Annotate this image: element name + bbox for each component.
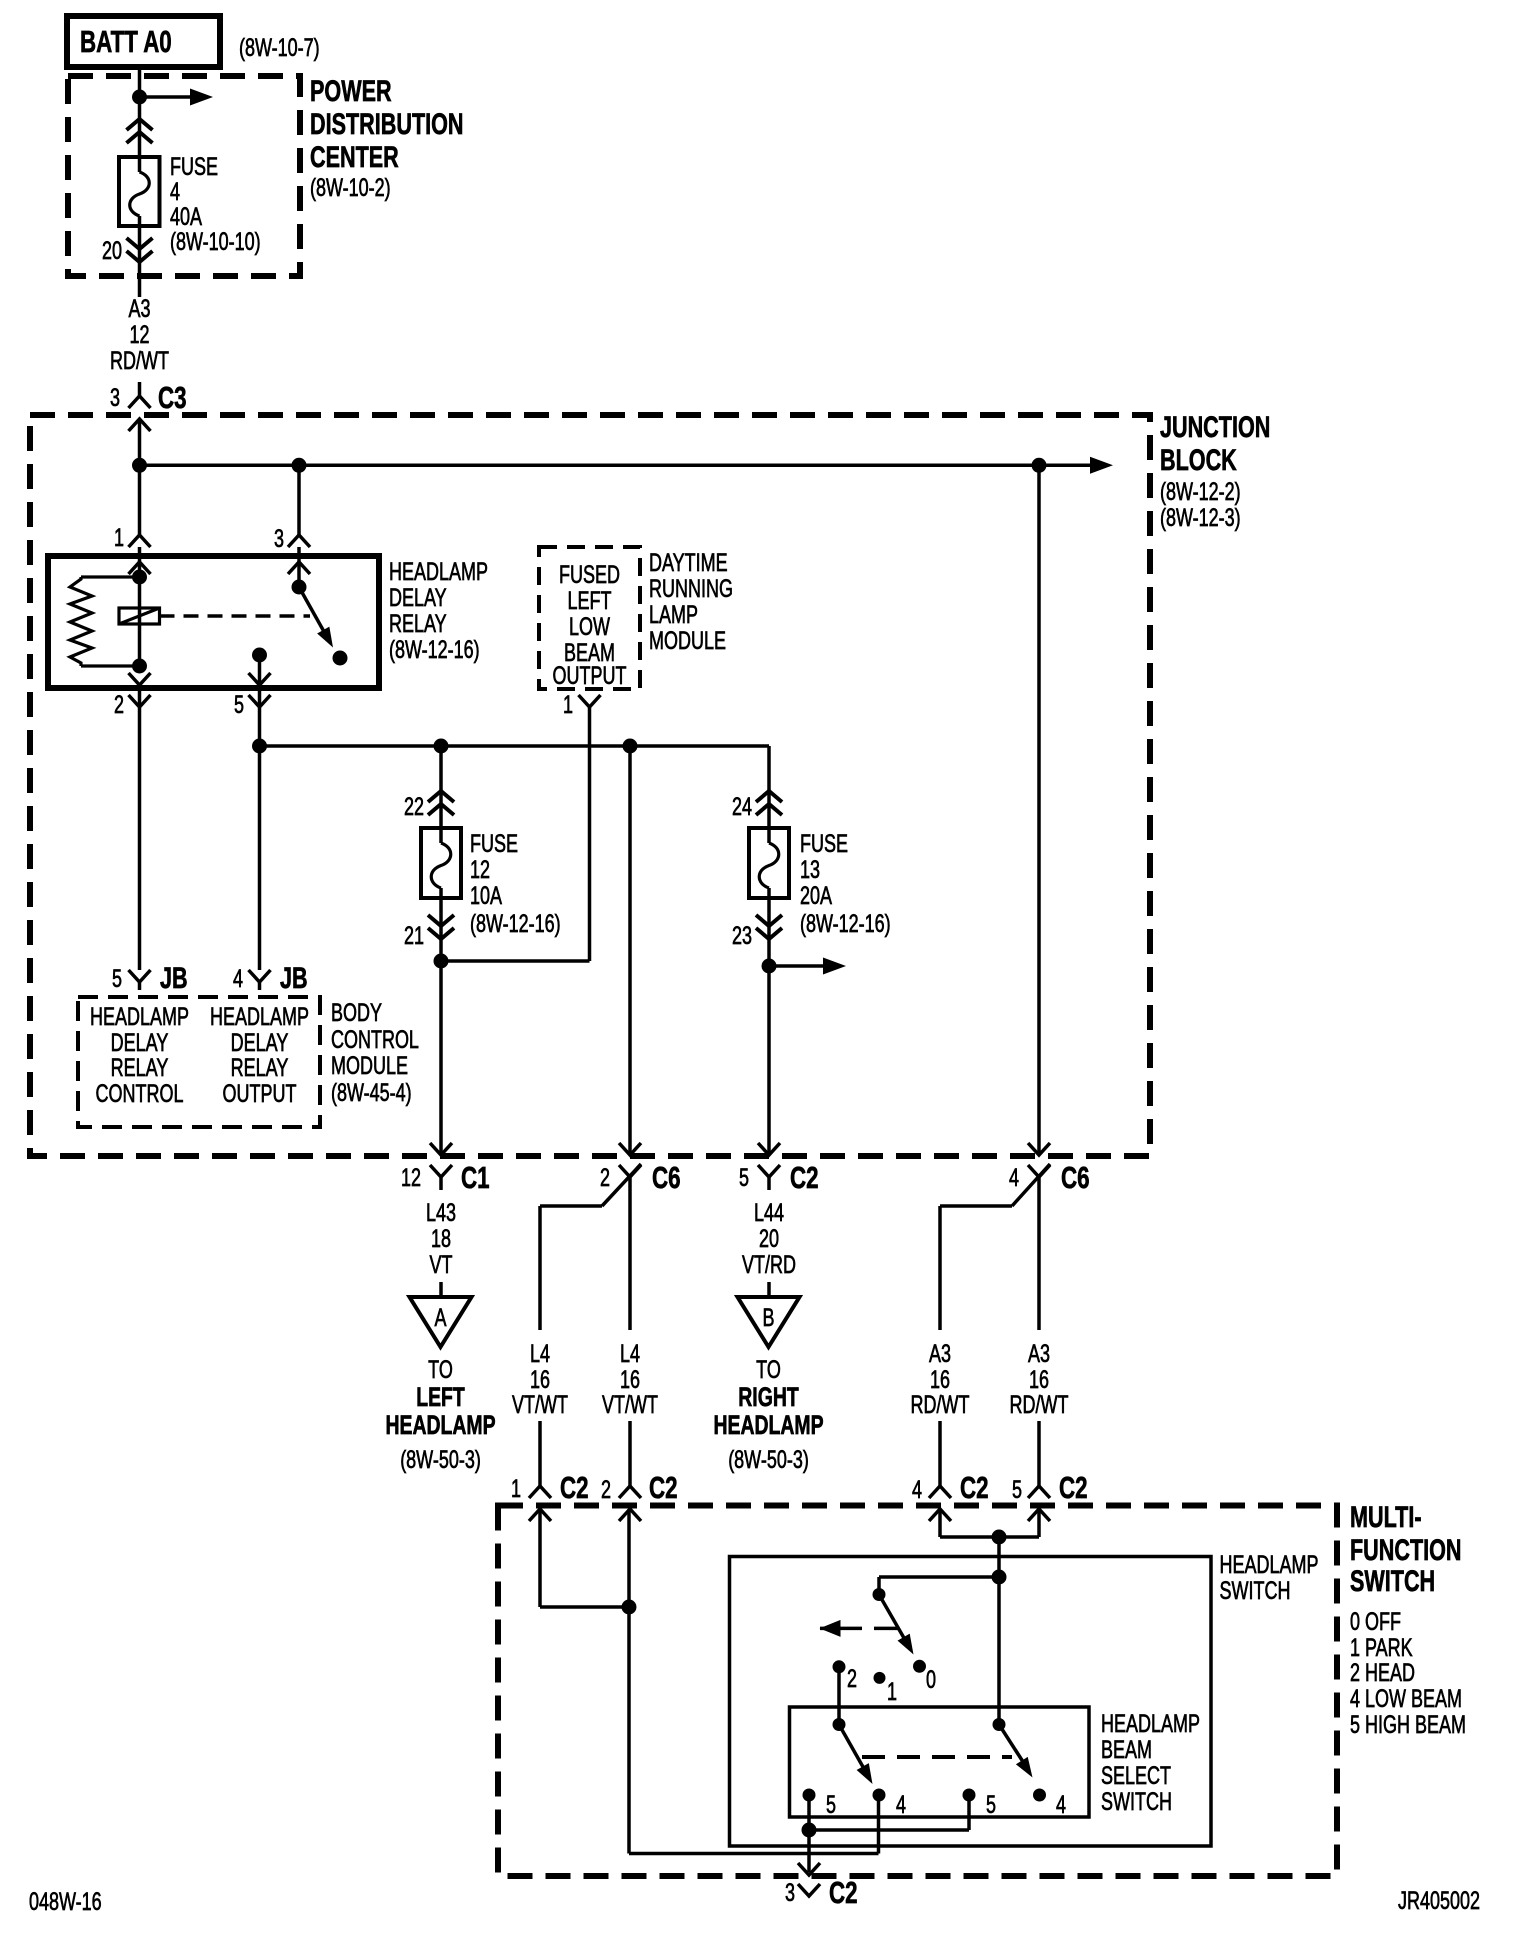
- daytime running lamp module box FUSED LEFT LOW BEAM OUTPUT: [539, 547, 640, 689]
- beam select right arm: [999, 1725, 1027, 1769]
- svg-text:JB: JB: [280, 960, 308, 994]
- svg-text:4: 4: [912, 1475, 922, 1504]
- svg-text:POWER: POWER: [310, 73, 392, 107]
- svg-text:DISTRIBUTION: DISTRIBUTION: [310, 106, 464, 140]
- svg-text:RD/WT: RD/WT: [911, 1390, 970, 1419]
- svg-text:2: 2: [847, 1664, 857, 1693]
- svg-text:048W-16: 048W-16: [29, 1887, 102, 1916]
- svg-text:1: 1: [887, 1677, 897, 1706]
- rotary switch common node: [873, 1588, 886, 1601]
- beam select left pole node: [833, 1718, 846, 1731]
- wire from DRL pin 1 to fuse 12 output node: [588, 707, 592, 961]
- beam select contact 5 left: [803, 1789, 816, 1802]
- svg-text:(8W-12-16): (8W-12-16): [389, 635, 480, 664]
- svg-text:JR405002: JR405002: [1398, 1886, 1480, 1915]
- svg-text:12: 12: [470, 855, 490, 884]
- svg-text:C2: C2: [649, 1470, 678, 1504]
- svg-text:CONTROL: CONTROL: [96, 1079, 184, 1108]
- wire C6 pin 4 branch diagonal: [1012, 1164, 1050, 1206]
- svg-text:RIGHT: RIGHT: [738, 1382, 799, 1412]
- relay switch arm: [299, 587, 327, 637]
- fuse F13: [749, 828, 789, 898]
- connector C6 pin 2: [619, 1143, 641, 1155]
- svg-text:(8W-10-10): (8W-10-10): [170, 227, 261, 256]
- wire feed to rotary common: [879, 1575, 999, 1579]
- inline connector above fuse 13 pin 24: [756, 791, 782, 802]
- junction node bus right: [1032, 458, 1047, 473]
- svg-text:2 HEAD: 2 HEAD: [1350, 1658, 1415, 1687]
- svg-text:5: 5: [234, 690, 244, 719]
- svg-text:LAMP: LAMP: [649, 600, 698, 629]
- inline connector above fuse 12 pin 22: [428, 791, 454, 802]
- svg-text:VT: VT: [430, 1250, 453, 1279]
- arrow feed to other PDC circuits: [140, 95, 197, 99]
- relay pin 2: [129, 673, 151, 685]
- svg-text:23: 23: [732, 921, 752, 950]
- svg-text:TO: TO: [756, 1355, 781, 1384]
- svg-text:FUNCTION: FUNCTION: [1350, 1532, 1462, 1566]
- svg-text:MODULE: MODULE: [331, 1051, 408, 1080]
- junction node bus relay pin 3: [292, 458, 307, 473]
- svg-text:OUTPUT: OUTPUT: [223, 1079, 297, 1108]
- svg-text:FUSE: FUSE: [470, 829, 518, 858]
- relay coil-to-contact dashed link: [160, 614, 311, 618]
- beam select left arm: [839, 1725, 867, 1775]
- wire from C3 to bus: [138, 419, 142, 535]
- svg-text:HEADLAMP: HEADLAMP: [90, 1002, 189, 1031]
- beam select contact 5 right: [963, 1789, 976, 1802]
- battery feed box BATT A0: [67, 16, 220, 67]
- svg-text:SWITCH: SWITCH: [1220, 1576, 1291, 1605]
- svg-text:LEFT: LEFT: [416, 1382, 465, 1412]
- beam select pole link dashed: [862, 1755, 1012, 1759]
- svg-text:DAYTIME: DAYTIME: [649, 548, 728, 577]
- wire C2 pin 2 to beam select contact 4: [627, 1509, 631, 1854]
- fuse F4: [119, 157, 160, 226]
- svg-text:C3: C3: [158, 380, 187, 414]
- wire RD/WT left to C2 pin 4: [938, 1421, 942, 1486]
- wire C6 pin 4 straight: [1037, 1190, 1041, 1330]
- svg-text:10A: 10A: [470, 881, 502, 910]
- connector C3 mating arrow below junction block edge: [129, 419, 151, 431]
- svg-text:SWITCH: SWITCH: [1101, 1787, 1172, 1816]
- wire A0 from BATT to fuse 4: [138, 67, 142, 157]
- svg-text:1: 1: [114, 523, 124, 552]
- headlamp switch box: [730, 1557, 1212, 1847]
- connector C1 pin 12: [430, 1143, 452, 1155]
- svg-text:C2: C2: [960, 1470, 989, 1504]
- arrow fuse 13 feed to other circuits: [769, 964, 829, 968]
- svg-text:0: 0: [926, 1665, 936, 1694]
- svg-text:RELAY: RELAY: [111, 1053, 169, 1082]
- relay contact node pin 5: [252, 648, 267, 663]
- svg-text:20: 20: [759, 1224, 779, 1253]
- svg-text:3: 3: [274, 524, 284, 553]
- svg-text:(8W-12-2): (8W-12-2): [1160, 477, 1241, 506]
- inline connector below fuse 4 pin 20: [127, 251, 153, 262]
- wire C2 pins 4 and 5 bridge: [938, 1509, 942, 1537]
- junction node pin 5 wire: [252, 739, 267, 754]
- svg-text:TO: TO: [428, 1355, 453, 1384]
- wire VT/RD to triangle B: [767, 1282, 771, 1297]
- junction node contacts 5 bridge: [802, 1823, 817, 1838]
- svg-text:2: 2: [114, 690, 124, 719]
- svg-text:RD/WT: RD/WT: [110, 346, 169, 375]
- svg-text:4: 4: [233, 964, 243, 993]
- svg-text:L43: L43: [426, 1198, 456, 1227]
- svg-text:BLOCK: BLOCK: [1160, 442, 1237, 476]
- junction node A0: [132, 90, 147, 105]
- svg-text:L44: L44: [754, 1198, 784, 1227]
- inline connector below fuse 12 pin 21: [428, 928, 454, 939]
- rotary contact 1: [874, 1672, 886, 1684]
- svg-text:SWITCH: SWITCH: [1350, 1563, 1435, 1597]
- headlamp delay relay box: [48, 556, 379, 688]
- svg-text:RELAY: RELAY: [231, 1053, 289, 1082]
- rotary contact 2: [833, 1660, 846, 1673]
- wire C6 pin 2 straight: [628, 1190, 632, 1330]
- svg-text:3: 3: [785, 1878, 795, 1907]
- svg-text:HEADLAMP: HEADLAMP: [1220, 1550, 1319, 1579]
- svg-text:4: 4: [1009, 1163, 1019, 1192]
- body control module box: [78, 997, 320, 1127]
- svg-text:13: 13: [800, 855, 820, 884]
- svg-text:BEAM: BEAM: [1101, 1735, 1152, 1764]
- wire VT/WT right to C2 pin 2: [628, 1421, 632, 1486]
- svg-text:CENTER: CENTER: [310, 139, 399, 173]
- connector C2 pin 5: [758, 1143, 780, 1155]
- svg-text:20A: 20A: [800, 881, 832, 910]
- svg-text:5: 5: [739, 1163, 749, 1192]
- junction node pins 4-5 bridge: [992, 1530, 1007, 1545]
- wire A3 from PDC to junction block: [138, 226, 142, 297]
- wire to connector C6 pin 2: [628, 746, 632, 1155]
- fuse F13 branch wire: [767, 746, 771, 828]
- svg-text:RUNNING: RUNNING: [649, 574, 733, 603]
- wire RD/WT right to C2 pin 5: [1037, 1421, 1041, 1486]
- svg-text:FUSE: FUSE: [800, 829, 848, 858]
- svg-text:18: 18: [431, 1224, 451, 1253]
- svg-text:12: 12: [129, 320, 149, 349]
- connector C2 pin 3: [798, 1863, 820, 1875]
- arrow bus to other junction block circuits: [1090, 457, 1113, 474]
- svg-text:VT/RD: VT/RD: [742, 1250, 796, 1279]
- headlamp beam select switch box: [790, 1707, 1090, 1817]
- svg-text:OUTPUT: OUTPUT: [553, 661, 627, 690]
- relay coil resistor: [81, 575, 140, 578]
- wire bus to relay pin 3: [297, 465, 301, 535]
- svg-text:C6: C6: [1061, 1160, 1090, 1194]
- junction node pin1-pin2 wires: [622, 1600, 637, 1615]
- svg-text:12: 12: [401, 1163, 421, 1192]
- svg-text:BATT A0: BATT A0: [80, 24, 172, 58]
- svg-text:L4: L4: [620, 1339, 640, 1368]
- junction node fuse 12 output: [434, 954, 449, 969]
- junction node bus left: [132, 458, 147, 473]
- svg-text:2: 2: [601, 1475, 611, 1504]
- svg-text:RELAY: RELAY: [389, 609, 447, 638]
- relay contact node NO: [333, 651, 348, 666]
- svg-text:MULTI-: MULTI-: [1350, 1499, 1422, 1533]
- svg-text:JUNCTION: JUNCTION: [1160, 409, 1270, 443]
- wire fuse 13 to connector C2: [767, 898, 771, 1155]
- svg-text:C2: C2: [1059, 1470, 1088, 1504]
- wire C2 pin 1 into switch: [538, 1509, 542, 1607]
- svg-text:FUSED: FUSED: [559, 560, 620, 589]
- relay coil: [119, 608, 160, 624]
- beam select contact 4 right: [1033, 1789, 1046, 1802]
- svg-text:0 OFF: 0 OFF: [1350, 1607, 1401, 1636]
- svg-text:(8W-50-3): (8W-50-3): [400, 1445, 481, 1474]
- svg-text:C6: C6: [652, 1160, 681, 1194]
- inline connector above fuse 4: [127, 119, 153, 130]
- svg-text:B: B: [762, 1303, 774, 1332]
- rotary direction arrow: [820, 1620, 841, 1637]
- svg-text:5: 5: [986, 1790, 996, 1819]
- wire bus to connector C6 pin 4: [1037, 465, 1041, 1155]
- svg-text:VT/WT: VT/WT: [602, 1390, 658, 1419]
- wire fuse 12 to connector C1: [439, 898, 443, 1155]
- svg-text:(8W-12-16): (8W-12-16): [470, 909, 561, 938]
- rotary contact 0: [913, 1660, 926, 1673]
- relay coil wire: [138, 577, 142, 666]
- beam select right pole node: [993, 1718, 1006, 1731]
- wire contact 2 to beam select pole: [837, 1667, 841, 1725]
- svg-text:5: 5: [112, 964, 122, 993]
- svg-text:3: 3: [110, 383, 120, 412]
- junction node fuse 12 branch: [434, 739, 449, 754]
- svg-text:(8W-12-16): (8W-12-16): [800, 909, 891, 938]
- beam select contact 4 left: [873, 1789, 886, 1802]
- svg-text:2: 2: [600, 1163, 610, 1192]
- svg-text:MODULE: MODULE: [649, 626, 726, 655]
- svg-text:C2: C2: [790, 1160, 819, 1194]
- distribution wire to fuses: [260, 744, 770, 748]
- svg-text:4: 4: [1056, 1790, 1066, 1819]
- off-page triangle B: [738, 1297, 800, 1347]
- svg-text:20: 20: [102, 236, 122, 265]
- relay coil node top: [132, 570, 147, 585]
- wire relay pin 5 down: [258, 688, 262, 746]
- junction node fuse 13 output: [762, 959, 777, 974]
- multi-function switch box: [498, 1506, 1337, 1877]
- svg-text:(8W-50-3): (8W-50-3): [728, 1445, 809, 1474]
- wire C6 pin 2 branch diagonal: [602, 1164, 641, 1206]
- svg-text:HEADLAMP: HEADLAMP: [389, 557, 488, 586]
- svg-text:(8W-45-4): (8W-45-4): [331, 1078, 412, 1107]
- svg-text:A3: A3: [128, 294, 150, 323]
- svg-text:JB: JB: [160, 960, 188, 994]
- bus wire in junction block: [140, 464, 1093, 468]
- fuse F12: [421, 828, 461, 898]
- svg-text:C1: C1: [461, 1160, 490, 1194]
- svg-text:24: 24: [732, 792, 752, 821]
- svg-text:L4: L4: [530, 1339, 550, 1368]
- fuse F12 branch wire: [439, 746, 443, 828]
- svg-text:5: 5: [826, 1790, 836, 1819]
- svg-text:VT/WT: VT/WT: [512, 1390, 568, 1419]
- svg-text:BODY: BODY: [331, 998, 382, 1027]
- svg-text:A3: A3: [929, 1339, 951, 1368]
- power distribution center box: [68, 76, 300, 276]
- svg-text:LEFT: LEFT: [568, 586, 612, 615]
- svg-text:22: 22: [404, 792, 424, 821]
- svg-text:(8W-10-7): (8W-10-7): [239, 33, 320, 62]
- wire contacts 5 bridge: [809, 1828, 969, 1832]
- rotary switch arm: [879, 1595, 908, 1646]
- junction block box: [30, 415, 1150, 1156]
- svg-text:RD/WT: RD/WT: [1010, 1390, 1069, 1419]
- svg-text:A: A: [434, 1303, 446, 1332]
- svg-text:HEADLAMP: HEADLAMP: [210, 1002, 309, 1031]
- svg-text:4 LOW BEAM: 4 LOW BEAM: [1350, 1684, 1462, 1713]
- svg-text:SELECT: SELECT: [1101, 1761, 1171, 1790]
- svg-text:C2: C2: [829, 1875, 858, 1909]
- svg-text:CONTROL: CONTROL: [331, 1025, 419, 1054]
- junction node headlamp switch feed: [992, 1570, 1007, 1585]
- svg-text:HEADLAMP: HEADLAMP: [1101, 1709, 1200, 1738]
- relay coil node bottom: [132, 659, 147, 674]
- off-page triangle A: [410, 1297, 472, 1347]
- wire VT to triangle A: [439, 1282, 443, 1297]
- svg-text:(8W-10-2): (8W-10-2): [310, 173, 391, 202]
- svg-text:(8W-12-3): (8W-12-3): [1160, 503, 1241, 532]
- svg-text:5 HIGH BEAM: 5 HIGH BEAM: [1350, 1710, 1466, 1739]
- svg-text:DELAY: DELAY: [389, 583, 447, 612]
- junction node C6 pin 2 branch: [623, 739, 638, 754]
- wire VT/WT left to C2 pin 1: [538, 1421, 542, 1486]
- relay common contact node pin 3: [292, 580, 307, 595]
- svg-text:1: 1: [563, 690, 573, 719]
- svg-text:HEADLAMP: HEADLAMP: [713, 1410, 823, 1440]
- svg-text:C2: C2: [560, 1470, 589, 1504]
- inline connector below fuse 13 pin 23: [756, 928, 782, 939]
- svg-text:HEADLAMP: HEADLAMP: [385, 1410, 495, 1440]
- svg-text:1: 1: [511, 1474, 521, 1503]
- relay pin 5: [258, 655, 262, 688]
- svg-text:21: 21: [404, 921, 424, 950]
- svg-text:4: 4: [896, 1790, 906, 1819]
- connector C6 pin 4: [1028, 1143, 1050, 1155]
- wire contact 5 left to C2 pin 3: [807, 1795, 811, 1872]
- wire relay pin 2 to BCM: [138, 688, 142, 970]
- wire relay pin 5 to BCM: [258, 746, 262, 970]
- svg-text:A3: A3: [1028, 1339, 1050, 1368]
- wire bridge to switch common: [997, 1537, 1001, 1725]
- svg-text:5: 5: [1012, 1475, 1022, 1504]
- svg-text:LOW: LOW: [569, 612, 610, 641]
